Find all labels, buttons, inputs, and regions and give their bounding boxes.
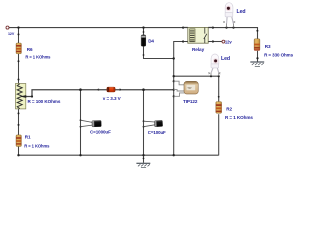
terminal 12V input (6, 26, 9, 29)
pin: C1 negative lead (80, 126, 82, 128)
wire C1 branch (80, 90, 82, 156)
pin: relay contact common (212, 27, 214, 29)
svg-text:TIP122: TIP122 (183, 99, 198, 104)
resistor R6 (16, 43, 51, 60)
svg-text:R = 330 Ohms: R = 330 Ohms (264, 52, 294, 57)
pin: R5 pot bottom (18, 112, 20, 114)
svg-text:12V: 12V (8, 32, 15, 36)
wire D4 branch to collector rail (144, 28, 174, 59)
svg-text:R = 1 KOhms: R = 1 KOhms (25, 55, 51, 60)
wire relay coil return rail (174, 42, 188, 156)
node: collector rail / LED2 wire junction (173, 75, 175, 77)
pin: relay contact NO (212, 40, 214, 42)
LED2 indicator (208, 54, 230, 76)
ground under C2 rail (136, 163, 150, 167)
node: top rail / left rail junction (17, 26, 19, 28)
ground under R3 (250, 62, 264, 66)
pin: LED1 anode (225, 27, 227, 29)
svg-text:R6: R6 (27, 47, 33, 52)
pin: LED1 cathode (232, 27, 234, 29)
pin: R6 top (18, 33, 20, 35)
svg-text:Relay: Relay (192, 47, 205, 52)
pin: LED2 anode (210, 75, 212, 77)
resistor R1 (16, 134, 50, 148)
svg-text:R = 1 KOhms: R = 1 KOhms (24, 143, 50, 148)
wire relay to 12v terminal (208, 41, 222, 43)
pin: Q1 base (173, 89, 175, 91)
relay K1 (183, 27, 213, 52)
svg-text:v = 3.3 V: v = 3.3 V (103, 96, 122, 101)
pin: R6 bottom (18, 60, 20, 62)
svg-text:D4: D4 (148, 39, 154, 44)
wire R2 bottom to rail (218, 114, 220, 155)
wire left rail (18, 27, 20, 155)
pin: R5 pot wiper corner (31, 95, 33, 97)
svg-text:C=100uF: C=100uF (148, 130, 166, 135)
pin: R1 top (18, 124, 20, 126)
node: bottom rail / C1 junction (79, 154, 81, 156)
zener diode 3.3V (99, 87, 122, 101)
svg-text:R3: R3 (265, 44, 271, 49)
pin: D4 anode (143, 54, 145, 56)
LED1 top (223, 3, 245, 28)
svg-text:R2: R2 (226, 106, 232, 111)
terminal 12v relay contact (222, 40, 225, 43)
node: base wire / C2 junction (142, 88, 145, 91)
wire C2 rail to ground (143, 155, 145, 163)
svg-text:Led: Led (237, 9, 246, 15)
svg-text:12v: 12v (225, 40, 232, 45)
wire bottom ground rail (19, 154, 219, 156)
pin: C2 negative lead (143, 126, 145, 128)
pin: C2 positive lead (143, 120, 145, 122)
pin: C1 positive lead (80, 119, 82, 121)
node: collector rail / D4 return junction (173, 57, 175, 59)
wire relay top-right pin to LED1 and R3 drop (208, 28, 257, 39)
capacitor C2 100uF (144, 120, 167, 134)
pin: Q1 emitter (173, 95, 175, 97)
pin: D1 zener left (98, 89, 100, 91)
svg-text:Led: Led (221, 56, 230, 62)
pin: R3 bottom (256, 57, 258, 59)
pin: relay coil + (182, 27, 184, 29)
node: base wire / C1 junction (79, 88, 82, 91)
transistor TIP122 (174, 81, 199, 104)
pin: R3 top (256, 30, 258, 32)
svg-text:C=1000uF: C=1000uF (90, 130, 111, 135)
node: bottom rail / ground junction (142, 154, 144, 156)
node: bottom rail / R1 junction (17, 154, 19, 156)
capacitor C1 1000uF (81, 120, 112, 134)
node: bottom rail / emitter rail junction (173, 154, 175, 156)
pin: R2 top (218, 96, 220, 98)
wire pot wiper to transistor base (26, 90, 174, 97)
svg-text:TIP: TIP (187, 86, 191, 90)
svg-text:R1: R1 (25, 134, 31, 139)
svg-text:R = 100 KOhms: R = 100 KOhms (28, 99, 61, 104)
diode D4 (141, 35, 154, 46)
wire R3 to ground (257, 51, 259, 62)
pin: D1 zener right (119, 89, 121, 91)
resistor R3 (254, 39, 294, 58)
pin: D4 cathode (143, 31, 145, 33)
wire top rail from 12V terminal to relay (8, 27, 188, 29)
resistor R2 (216, 102, 254, 121)
pin: R5 pot top (18, 79, 20, 81)
wire C2 branch (143, 90, 145, 156)
potentiometer 100K (16, 84, 61, 109)
pin: relay coil - (182, 40, 184, 42)
pin: LED2 cathode (218, 75, 220, 77)
pin: Q1 collector (173, 80, 175, 82)
wire collector to LED2 and R2 (174, 76, 219, 101)
svg-text:R = 1 KOhms: R = 1 KOhms (225, 115, 253, 120)
node: top rail / D4 junction (142, 26, 144, 28)
pin: ground lead (143, 158, 145, 160)
